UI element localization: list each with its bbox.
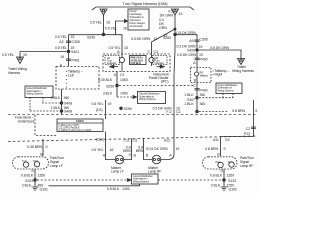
svg-text:15: 15 (71, 35, 75, 39)
ground distribution box right (216, 83, 242, 94)
wire dashed to ground distribution right stub2 (199, 111, 228, 113)
park/turn signal lamp RF (203, 157, 238, 169)
wire dashed ground bus bottom right (158, 179, 222, 181)
wire S260 right to C305 column (175, 35, 197, 68)
svg-text:Taillamp: Taillamp (200, 74, 209, 77)
svg-text:Lamp LF: Lamp LF (50, 164, 63, 168)
svg-text:9: 9 (224, 147, 226, 151)
svg-text:16: 16 (110, 148, 114, 152)
svg-text:0.35 BLK: 0.35 BLK (98, 78, 113, 82)
svg-text:19: 19 (60, 55, 64, 59)
LR indicator lamp (119, 57, 124, 62)
svg-text:S421: S421 (71, 50, 79, 54)
svg-text:BRN: BRN (136, 149, 144, 153)
RR turn indicator sub-box (153, 56, 168, 65)
connector C305 tick left column (66, 41, 71, 42)
svg-text:S299: S299 (124, 107, 132, 111)
wire left column 0.5 YEL down (68, 35, 70, 66)
svg-text:P401: P401 (72, 59, 80, 63)
svg-text:19: 19 (23, 53, 27, 57)
node S124 (34, 179, 37, 182)
svg-text:0.5 YEL: 0.5 YEL (90, 21, 102, 25)
node S408 lower + dashed row (30, 110, 60, 112)
cluster interchange note box (128, 9, 149, 30)
LR arrow (114, 66, 119, 68)
svg-text:A12: A12 (164, 138, 170, 142)
connector P401 tick (66, 59, 71, 60)
svg-text:Wiring Systems: Wiring Systems (27, 92, 44, 96)
svg-text:0.5 DK GRN: 0.5 DK GRN (177, 53, 196, 57)
svg-text:G101: G101 (40, 188, 48, 192)
node S408 upper + dashed row (42, 102, 60, 104)
svg-text:0.5 YEL: 0.5 YEL (2, 53, 14, 57)
LR turn indicator sub-box (105, 56, 120, 65)
svg-text:C305: C305 (200, 38, 208, 42)
svg-text:15: 15 (124, 46, 128, 50)
svg-text:9: 9 (46, 145, 48, 149)
ground G101 (32, 187, 39, 190)
svg-text:G102: G102 (229, 188, 237, 192)
svg-text:(IPC): (IPC) (161, 80, 169, 84)
svg-text:P13: P13 (244, 132, 250, 136)
svg-text:19: 19 (108, 102, 112, 106)
connector table C100 (57, 119, 103, 132)
ground distribution box left (25, 86, 53, 98)
svg-text:2 BLK: 2 BLK (22, 184, 32, 188)
wire horizontal to far-left trailer drop (20, 52, 69, 58)
svg-text:0.5 DK GRN: 0.5 DK GRN (149, 147, 168, 151)
wire dashed ground bus bottom (37, 179, 127, 181)
svg-text:A9: A9 (189, 39, 193, 43)
svg-text:0.8 BRN: 0.8 BRN (232, 109, 245, 113)
wire 0.35 BRN 9 park turn LF (42, 139, 44, 152)
wire 0.3 DK GRN diagonal branch to cluster pin C (174, 28, 176, 30)
cluster middle info box (130, 56, 147, 65)
svg-text:C3: C3 (154, 50, 158, 54)
svg-text:Indicator: Indicator (107, 61, 117, 65)
svg-text:0.5 YEL: 0.5 YEL (91, 102, 103, 106)
harness bracket line (92, 7, 194, 10)
wire to ground G102 (223, 180, 225, 187)
marker lamp RF (152, 155, 161, 164)
svg-text:1350: 1350 (227, 174, 235, 178)
svg-text:Indicator: Indicator (155, 61, 165, 65)
svg-text:DK GRN: DK GRN (160, 14, 174, 18)
svg-text:A11: A11 (213, 138, 219, 142)
section divider 2 dashed (8, 136, 256, 142)
park/turn signal lamp LF (13, 157, 49, 169)
wire 0.5 BLK 1350 bottom marker ground (49, 184, 140, 186)
dashed stubs from right GD box (223, 94, 233, 98)
wire 0.35 BLK 1450 below cluster (116, 72, 118, 98)
svg-text:360: 360 (64, 96, 70, 100)
wire horizontal S299 left to left taillamp column (69, 34, 104, 36)
wire right taillamp grounds 1 BLK (196, 83, 198, 113)
wire to ground G101 (34, 180, 36, 187)
svg-text:Underhood: Underhood (18, 120, 35, 124)
node S123 (223, 179, 226, 182)
svg-text:19: 19 (176, 147, 180, 151)
svg-text:19: 19 (154, 37, 158, 41)
connector triangle far-left trailer (17, 57, 24, 64)
arrow pointer into note box (116, 21, 125, 35)
wire to right trailer drop (197, 50, 241, 59)
svg-text:1 BLK: 1 BLK (184, 102, 194, 106)
svg-text:0.8 BRN: 0.8 BRN (205, 147, 218, 151)
svg-text:18: 18 (106, 21, 110, 25)
svg-text:1 BLK: 1 BLK (51, 106, 61, 110)
left taillamp ground wire 1 BLK 360 (61, 89, 63, 115)
connector triangle top-right (172, 9, 179, 15)
wire 0.5 DK GRN 19 from top-right triangle (174, 15, 176, 35)
svg-text:P400: P400 (200, 58, 208, 62)
RR arrow (157, 66, 161, 68)
svg-text:Harness: Harness (8, 71, 20, 75)
marker lamp LF (115, 155, 124, 164)
svg-text:1 BLK: 1 BLK (51, 96, 61, 100)
svg-text:19: 19 (164, 34, 168, 38)
node S299 lower junction (120, 107, 123, 110)
wire 0.5 YEL 16 from top-left triangle (103, 15, 105, 35)
svg-text:360: 360 (200, 93, 206, 97)
svg-text:C (GRN) (7-GRY) 24-2 (7-GRN): C (GRN) (7-GRY) 24-2 (7-GRN) (59, 129, 92, 132)
svg-text:(D1): (D1) (96, 108, 103, 112)
svg-text:S123: S123 (228, 179, 236, 183)
svg-text:Turn: Turn (22, 159, 27, 163)
RR indicator lamp (149, 57, 154, 62)
svg-text:9: 9 (129, 153, 131, 157)
svg-text:Lamp RF: Lamp RF (148, 170, 161, 174)
svg-text:• Right: • Right (213, 73, 223, 77)
svg-text:C11: C11 (123, 139, 129, 143)
connector C2 tick right (251, 127, 256, 128)
svg-text:0.5 YEL: 0.5 YEL (91, 148, 103, 152)
section divider 1 dashed (8, 114, 256, 116)
svg-text:0.35 BRN: 0.35 BRN (27, 145, 42, 149)
instrument panel cluster dashed box (103, 54, 170, 72)
wire horizontal S299 right then down to cluster pin B (104, 35, 123, 54)
svg-text:19: 19 (199, 53, 203, 57)
svg-text:19: 19 (199, 45, 203, 49)
svg-text:and Console: and Console (130, 25, 144, 28)
svg-text:0.8 BLK: 0.8 BLK (210, 174, 223, 178)
wire dashed S407 to ground distribution right (199, 97, 233, 99)
svg-text:C11: C11 (131, 139, 137, 143)
svg-text:S299: S299 (87, 36, 95, 40)
fuse block underhood dashed box (35, 115, 57, 136)
node S299 junction dot (102, 33, 105, 36)
svg-text:S408: S408 (64, 110, 72, 114)
svg-text:C2: C2 (176, 110, 180, 114)
dashed arrow to ground distribution box (117, 96, 133, 98)
svg-text:C2: C2 (246, 127, 250, 131)
svg-text:Lamp LF: Lamp LF (111, 170, 124, 174)
svg-text:Lamp RF: Lamp RF (240, 164, 253, 168)
ground distribution box bottom (132, 174, 159, 184)
svg-text:2 BLK: 2 BLK (211, 184, 221, 188)
svg-text:S420: S420 (187, 48, 195, 52)
svg-text:16: 16 (123, 27, 127, 31)
node lower right dot (196, 110, 199, 113)
taillamp right dashed box (191, 68, 212, 83)
svg-text:P400: P400 (200, 88, 208, 92)
svg-text:Wiring Systems: Wiring Systems (139, 97, 156, 101)
svg-text:F-2: F-2 (166, 110, 171, 114)
svg-text:Turn: Turn (228, 160, 233, 164)
svg-text:Turn Signal Harness (DIM): Turn Signal Harness (DIM) (123, 1, 169, 6)
svg-text:C1: C1 (120, 73, 124, 77)
node S250 (116, 84, 119, 87)
svg-text:0.5 YEL: 0.5 YEL (55, 35, 67, 39)
svg-text:0.5 YEL: 0.5 YEL (55, 46, 67, 50)
connector C305 tick right column (195, 40, 200, 41)
svg-text:Wiring Systems: Wiring Systems (133, 180, 150, 183)
svg-text:Wiring Systems: Wiring Systems (218, 89, 235, 92)
connector P400 tick (195, 58, 200, 59)
svg-text:0.35 BLK: 0.35 BLK (131, 61, 142, 65)
node S421 junction (67, 50, 70, 53)
svg-text:Park: Park (33, 159, 39, 163)
connector triangle right trailer (238, 59, 245, 65)
svg-text:A2: A2 (59, 40, 63, 44)
ground G102 (221, 187, 228, 190)
wire 0.3 DK GRN long down right-center (161, 35, 175, 160)
svg-text:S250: S250 (106, 84, 114, 88)
svg-text:S124: S124 (25, 179, 33, 183)
svg-text:GRN: GRN (159, 26, 167, 30)
svg-text:360: 360 (200, 102, 206, 106)
svg-text:0.8 BLK: 0.8 BLK (21, 174, 34, 178)
svg-text:0.5 BLK: 0.5 BLK (107, 187, 120, 191)
svg-text:9: 9 (255, 109, 257, 113)
svg-text:Wiring Harness: Wiring Harness (232, 69, 254, 73)
svg-text:0.3 DK GRN: 0.3 DK GRN (177, 45, 196, 49)
svg-text:C5: C5 (225, 138, 229, 142)
svg-text:1350: 1350 (122, 187, 130, 191)
wire 0.8 BRN 9 marker LF right pin (124, 138, 132, 159)
svg-text:1450: 1450 (120, 92, 128, 96)
svg-text:0.5 DK GRN: 0.5 DK GRN (131, 37, 150, 41)
connector triangle top-left (100, 9, 107, 15)
svg-text:1 BLK: 1 BLK (184, 93, 194, 97)
svg-text:C305: C305 (72, 40, 80, 44)
connector P400 lower tick (195, 89, 200, 90)
wire 0.8 BRN 9 marker RF left pin (144, 138, 153, 160)
svg-text:1450: 1450 (120, 78, 128, 82)
svg-text:3 BLK: 3 BLK (103, 92, 113, 96)
svg-text:0.5 DK GRN: 0.5 DK GRN (210, 46, 229, 50)
svg-text:Park: Park (216, 160, 222, 164)
taillamp left dashed box (56, 67, 99, 90)
dashed stubs from left GD box (30, 98, 43, 112)
wire dashed S250 to right taillamp ground (119, 85, 193, 87)
wire 0.5 YEL 19 center-left (105, 100, 107, 119)
wire 0.8 BRN 9 park turn RF from right (221, 100, 254, 152)
svg-text:1350: 1350 (38, 174, 46, 178)
right box lamp pin (195, 72, 199, 76)
svg-text:19: 19 (179, 12, 183, 16)
node S260 junction dot (174, 33, 177, 36)
node S420 trailer feed dot right (196, 49, 198, 51)
node S407 (196, 96, 199, 99)
ground distribution box center (138, 92, 166, 104)
svg-text:(C11): (C11) (96, 138, 104, 142)
